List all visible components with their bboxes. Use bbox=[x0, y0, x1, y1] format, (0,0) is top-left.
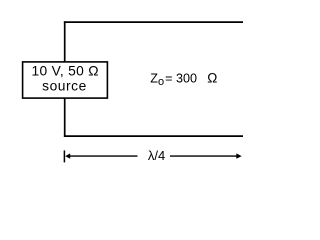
wire: vertical lead from source box down to bottom conductor bbox=[64, 98, 66, 137]
dimension line left segment bbox=[70, 155, 138, 157]
dimension extension tick at left end bbox=[63, 150, 65, 162]
dimension arrowhead left bbox=[65, 153, 70, 158]
wire: vertical lead from top conductor down to source box bbox=[64, 21, 66, 62]
dimension line right segment bbox=[170, 155, 237, 157]
svg-text:10 V, 50 Ω: 10 V, 50 Ω bbox=[32, 63, 99, 78]
svg-text:source: source bbox=[42, 79, 87, 94]
svg-text:λ/4: λ/4 bbox=[148, 148, 165, 163]
wire: bottom conductor of transmission line bbox=[64, 135, 243, 137]
svg-text:Zo= 300Ω: Zo= 300Ω bbox=[150, 70, 217, 88]
source box (10 V, 50 ohm source) bbox=[23, 62, 108, 98]
dimension arrowhead right bbox=[236, 153, 241, 158]
wire: top conductor of transmission line bbox=[64, 21, 243, 23]
